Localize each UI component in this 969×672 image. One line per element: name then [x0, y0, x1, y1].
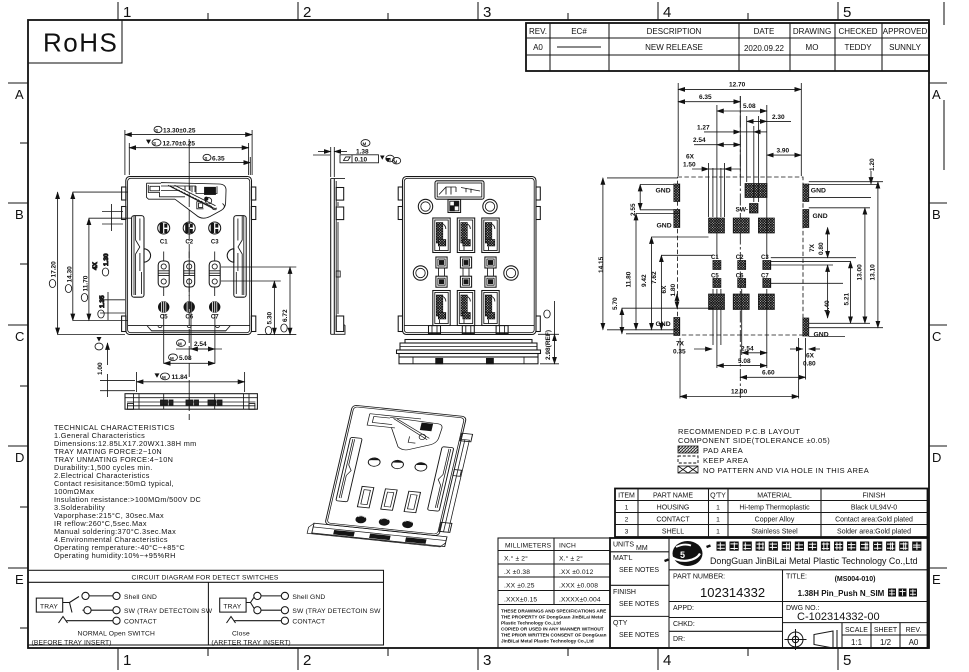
sw contact — [254, 607, 261, 614]
iso switch mechanism — [362, 414, 443, 453]
svg-text:C: C — [15, 329, 24, 344]
svg-text:A: A — [15, 87, 24, 102]
svg-text:A0: A0 — [909, 638, 919, 647]
svg-text:6.72: 6.72 — [282, 309, 289, 322]
svg-text:MAT'L: MAT'L — [613, 555, 633, 562]
svg-text:TEDDY: TEDDY — [844, 43, 872, 52]
svg-text:EC#: EC# — [571, 27, 587, 36]
svg-text:9.42: 9.42 — [641, 274, 648, 287]
left info column — [610, 538, 669, 648]
RoHS box — [28, 20, 122, 63]
iso tray front — [307, 523, 447, 548]
svg-text:SEE NOTES: SEE NOTES — [619, 601, 659, 608]
large pads row top — [709, 218, 725, 233]
company chinese name (pseudo glyphs) — [717, 542, 922, 551]
svg-text:D: D — [932, 450, 941, 465]
svg-text:GND: GND — [811, 188, 826, 195]
svg-text:X.° ± 2°: X.° ± 2° — [559, 555, 583, 563]
svg-text:M: M — [170, 356, 174, 361]
svg-text:5.08: 5.08 — [179, 355, 192, 362]
svg-text:M: M — [363, 142, 367, 147]
dim 4.40 right — [824, 265, 831, 318]
dim 2.55 left — [630, 185, 640, 217]
left guide rail — [132, 216, 151, 298]
center line of top view — [188, 139, 190, 176]
svg-text:.XX ±0.25: .XX ±0.25 — [504, 583, 535, 590]
svg-text:E: E — [932, 572, 941, 587]
projection symbol — [785, 629, 838, 650]
dim 5.21 right — [844, 261, 851, 323]
left dim 11.70 — [81, 218, 131, 320]
svg-text:GND: GND — [657, 223, 672, 230]
top contact C1 — [158, 222, 170, 234]
svg-text:1: 1 — [716, 505, 720, 512]
dim 1.20 right — [809, 158, 877, 185]
svg-text:SCALE: SCALE — [845, 627, 868, 634]
svg-text:RoHS: RoHS — [43, 28, 118, 58]
GND pad bottom-right — [803, 318, 809, 336]
svg-text:2: 2 — [303, 652, 311, 669]
side mounting tabs left — [122, 187, 126, 200]
svg-text:B: B — [15, 207, 24, 222]
svg-text:1.80: 1.80 — [670, 283, 677, 296]
dim 6X 0.80 bottom-right — [790, 349, 820, 368]
svg-text:1: 1 — [123, 4, 131, 21]
center key feature — [448, 200, 461, 213]
svg-text:5: 5 — [843, 4, 851, 21]
svg-text:0.35: 0.35 — [673, 349, 686, 356]
dim 6.35 (pcb) — [678, 94, 740, 102]
svg-text:NORMAL Open SWITCH: NORMAL Open SWITCH — [78, 631, 156, 638]
svg-text:Operating humidity:10%~+95%RH: Operating humidity:10%~+95%RH — [54, 551, 176, 560]
svg-text:1: 1 — [123, 652, 131, 669]
GND pad left-2 — [674, 210, 680, 228]
svg-text:1.38H Pin_Push N_SIM: 1.38H Pin_Push N_SIM — [798, 589, 885, 598]
svg-text:2: 2 — [625, 517, 629, 524]
svg-text:C-102314332-00: C-102314332-00 — [797, 611, 880, 623]
svg-text:COMPONENT SIDE(TOLERANCE ±0.05: COMPONENT SIDE(TOLERANCE ±0.05) — [678, 436, 830, 445]
dim 5.70 left — [612, 297, 622, 334]
svg-text:SHELL: SHELL — [662, 529, 684, 536]
signal pads C1 C2 C3 — [713, 261, 721, 270]
bottom edge tabs — [404, 326, 534, 334]
dim 2.54 (pcb top) — [693, 137, 740, 145]
contact window col2 row1 — [457, 218, 474, 253]
zone column ticks and numbers (bottom) — [118, 648, 838, 670]
svg-text:SUNNLY: SUNNLY — [889, 43, 922, 52]
svg-text:DATE: DATE — [754, 27, 775, 36]
guide hole circles top — [418, 199, 432, 213]
svg-text:13.30±0.25: 13.30±0.25 — [163, 127, 196, 134]
dim 13.00 right — [857, 208, 865, 323]
svg-text:5.70: 5.70 — [612, 297, 619, 310]
TRAY box — [220, 598, 246, 612]
svg-text:13.10: 13.10 — [870, 264, 877, 281]
tray profile under bottom view — [397, 340, 541, 364]
svg-text:17.20: 17.20 — [50, 261, 57, 278]
svg-text:TRAY: TRAY — [40, 604, 58, 611]
svg-text:JinBiLai Metal Plastic Technol: JinBiLai Metal Plastic Technology Co.,Lt… — [501, 639, 594, 644]
svg-text:M: M — [394, 159, 398, 164]
TRAY box — [36, 598, 62, 612]
bottom view side tabs — [398, 187, 402, 200]
dim 12.00 bottom — [680, 389, 799, 397]
svg-text:C1: C1 — [711, 255, 719, 261]
contact window col2 row2 — [457, 291, 474, 326]
svg-text:HOUSING: HOUSING — [657, 505, 690, 512]
dim 13.30±0.25 — [125, 126, 252, 175]
title chinese (pseudo glyphs) — [888, 589, 917, 597]
svg-text:E: E — [15, 572, 24, 587]
svg-text:CONTACT: CONTACT — [656, 517, 690, 524]
svg-text:APPD:: APPD: — [673, 605, 694, 612]
svg-text:4: 4 — [663, 652, 671, 669]
svg-text:X.° ± 2°: X.° ± 2° — [504, 555, 528, 563]
dim 5.08 below main view — [164, 314, 215, 363]
svg-text:7X: 7X — [809, 243, 816, 252]
svg-text:5.30: 5.30 — [266, 311, 273, 324]
dim 7.62 left — [651, 255, 661, 329]
svg-text:7.62: 7.62 — [651, 271, 658, 284]
svg-text:4: 4 — [663, 4, 671, 21]
svg-text:APPROVED: APPROVED — [883, 27, 928, 36]
contact window col3 row2 — [482, 291, 499, 326]
svg-text:ITEM: ITEM — [618, 493, 635, 500]
bottom lip of body — [128, 326, 250, 331]
GND labels — [656, 188, 829, 339]
GND pad top-left — [674, 184, 680, 202]
left small dims 4X 1.30 — [92, 204, 123, 276]
dim 5.08 bottom — [717, 358, 767, 366]
svg-text:0.80: 0.80 — [803, 361, 816, 368]
iso top contacts — [367, 457, 427, 471]
svg-text:S: S — [204, 156, 207, 161]
side mounting tabs right — [251, 187, 255, 200]
svg-text:Stainless Steel: Stainless Steel — [751, 529, 798, 536]
pcb outline (keep area) — [678, 177, 804, 335]
svg-text:CHKD:: CHKD: — [673, 621, 695, 628]
zone row ticks and letters (right) — [929, 2, 947, 568]
svg-text:CHECKED: CHECKED — [838, 27, 877, 36]
svg-text:RECOMMENDED P.C.B LAYOUT: RECOMMENDED P.C.B LAYOUT — [678, 427, 800, 436]
svg-text:C6: C6 — [736, 273, 744, 279]
svg-text:6X: 6X — [806, 353, 815, 360]
svg-text:Solder area:Gold plated: Solder area:Gold plated — [837, 529, 911, 536]
top switch slot — [435, 181, 484, 199]
scale sheet rev — [842, 623, 928, 648]
svg-text:M: M — [178, 342, 182, 347]
svg-text:CONTACT: CONTACT — [124, 619, 157, 626]
svg-text:S: S — [153, 141, 156, 146]
dim 6X 1.50 — [683, 154, 741, 170]
svg-text:Plastic Technology Co.,Ltd: Plastic Technology Co.,Ltd — [501, 621, 561, 626]
svg-text:4X: 4X — [92, 261, 99, 270]
svg-text:6.35: 6.35 — [699, 94, 712, 101]
svg-text:SEE NOTES: SEE NOTES — [619, 632, 659, 639]
iso bottom contacts — [355, 515, 414, 528]
datum symbol at bottom view top-left — [386, 158, 391, 162]
svg-text:THE PRIOR WRITTEN CONSENT OF D: THE PRIOR WRITTEN CONSENT OF DongGuan — [501, 633, 607, 638]
large pads row bottom — [709, 294, 725, 310]
svg-text:TITLE:: TITLE: — [786, 574, 807, 581]
svg-text:SW-: SW- — [736, 207, 749, 214]
svg-text:Q'TY: Q'TY — [710, 493, 726, 500]
svg-text:Close: Close — [232, 631, 250, 638]
svg-text:6X: 6X — [661, 285, 668, 294]
svg-text:MATERIAL: MATERIAL — [757, 493, 792, 500]
dim 5.08 (pcb) — [717, 103, 767, 111]
svg-text:1/2: 1/2 — [880, 638, 892, 647]
spring symbol — [59, 617, 68, 624]
svg-text:REV.: REV. — [529, 27, 547, 36]
svg-text:6.35: 6.35 — [212, 155, 225, 162]
dim 6.35 — [189, 154, 250, 175]
dim 6.60 bottom — [740, 370, 805, 378]
shell gnd contact — [82, 592, 89, 599]
svg-text:S: S — [155, 128, 158, 133]
dim 2.30 (pcb) — [747, 114, 791, 121]
tray lever wire — [63, 597, 84, 613]
svg-text:1.35: 1.35 — [99, 295, 106, 308]
right guide rail — [227, 216, 246, 298]
svg-text:2020.09.22: 2020.09.22 — [744, 44, 785, 53]
svg-text:SHEET: SHEET — [874, 627, 898, 634]
left dim 14.30 — [65, 192, 127, 320]
middle contact pill 2 — [184, 252, 195, 297]
svg-text:2.54: 2.54 — [693, 137, 706, 144]
GND pad right-2 — [803, 210, 809, 228]
svg-text:DongGuan JinBiLai Metal Plasti: DongGuan JinBiLai Metal Plastic Technolo… — [710, 556, 918, 566]
contact wire — [113, 617, 120, 624]
svg-text:CIRCUIT DIAGRAM FOR DETECT SWI: CIRCUIT DIAGRAM FOR DETECT SWITCHES — [132, 575, 279, 582]
svg-text:14.15: 14.15 — [598, 256, 605, 273]
svg-text:GND: GND — [814, 332, 829, 339]
middle pad feature col3 — [485, 257, 496, 287]
detect switch mechanism — [147, 183, 227, 219]
svg-text:12.00: 12.00 — [731, 389, 748, 396]
signal pads C5 C6 C7 — [713, 279, 721, 288]
spring symbol — [227, 617, 236, 624]
top view body outline — [126, 177, 252, 335]
svg-text:Black UL94V-0: Black UL94V-0 — [851, 505, 897, 512]
svg-text:12.70: 12.70 — [729, 82, 746, 89]
svg-text:1: 1 — [625, 505, 629, 512]
svg-text:.X ±0.38: .X ±0.38 — [504, 569, 530, 576]
svg-text:3: 3 — [625, 529, 629, 536]
shell gnd contact — [254, 592, 261, 599]
svg-text:C: C — [932, 329, 941, 344]
svg-text:1: 1 — [716, 517, 720, 524]
svg-text:Shell GND: Shell GND — [292, 594, 325, 601]
svg-text:DR:: DR: — [673, 636, 685, 643]
zone row ticks and letters (left) — [8, 83, 28, 628]
svg-text:COPIED OR USED IN ANY MANNER W: COPIED OR USED IN ANY MANNER WITHOUT — [501, 627, 604, 632]
svg-text:MO: MO — [806, 43, 819, 52]
svg-text:DRAWING: DRAWING — [793, 27, 831, 36]
part number / title row — [669, 570, 928, 602]
dim 3.90 (pcb) — [767, 147, 802, 155]
svg-text:Hi-temp Thermoplastic: Hi-temp Thermoplastic — [739, 505, 810, 512]
center line vertical — [739, 96, 741, 398]
svg-text:1.00: 1.00 — [97, 362, 104, 375]
dim 14.15 left — [598, 178, 605, 330]
svg-text:C5: C5 — [711, 273, 719, 279]
svg-text:11.70: 11.70 — [82, 275, 89, 291]
ext lines above — [677, 83, 679, 176]
svg-text:THESE DRAWINGS AND SPECIFICATI: THESE DRAWINGS AND SPECIFICATIONS ARE — [501, 609, 606, 614]
svg-text:1.27: 1.27 — [697, 124, 710, 131]
svg-text:THE PROPERTY OF DongGuan JinBi: THE PROPERTY OF DongGuan JinBiLai Metal — [501, 615, 603, 620]
svg-text:1.30: 1.30 — [103, 253, 110, 266]
svg-text:B: B — [932, 207, 941, 222]
svg-text:2.54: 2.54 — [741, 345, 754, 352]
svg-text:2.30: 2.30 — [772, 114, 785, 121]
dim 13.10 right — [870, 182, 878, 328]
svg-text:DESCRIPTION: DESCRIPTION — [647, 27, 702, 36]
left side ext lines — [607, 178, 713, 334]
svg-text:6.60: 6.60 — [762, 370, 775, 377]
contact window col1 row2 — [433, 291, 450, 326]
sw contact — [84, 607, 91, 614]
svg-text:CONTACT: CONTACT — [292, 619, 325, 626]
guide hole circles middle — [413, 266, 427, 280]
dim 1.27 (pcb) — [697, 124, 767, 132]
svg-text:FINISH: FINISH — [863, 493, 886, 500]
svg-text:(MS004-010): (MS004-010) — [835, 576, 876, 583]
svg-text:Copper Alloy: Copper Alloy — [755, 517, 795, 524]
svg-text:PART NAME: PART NAME — [653, 493, 693, 500]
svg-text:4.40: 4.40 — [824, 300, 831, 313]
svg-text:.XXX±0.15: .XXX±0.15 — [504, 597, 537, 604]
dim 6.72 right of top view — [281, 267, 290, 335]
svg-text:UNITS: UNITS — [613, 542, 634, 549]
contact wire — [281, 617, 288, 624]
dim 7X 0.80 right — [809, 228, 828, 258]
GND pad bottom-left — [674, 318, 680, 336]
dim 2.98(REF) right of tray profile — [538, 301, 559, 364]
svg-text:12.70±0.25: 12.70±0.25 — [163, 140, 196, 147]
svg-text:C1: C1 — [160, 240, 168, 246]
svg-text:QTY: QTY — [613, 620, 628, 627]
svg-text:102314332: 102314332 — [700, 585, 765, 600]
svg-text:MILLIMETERS: MILLIMETERS — [505, 543, 552, 550]
dim 6X 1.80 left — [661, 283, 677, 308]
bottom ext lines — [680, 289, 806, 399]
svg-text:11.80: 11.80 — [626, 271, 633, 287]
bottom contact C7 — [209, 301, 220, 312]
pad labels — [711, 255, 769, 279]
svg-text:MM: MM — [636, 545, 648, 552]
svg-text:GND: GND — [656, 321, 671, 328]
svg-text:KEEP AREA: KEEP AREA — [703, 456, 749, 465]
svg-text:2.98(REF): 2.98(REF) — [545, 330, 552, 360]
svg-text:5.08: 5.08 — [738, 358, 751, 365]
left vertical dim at front view — [95, 337, 135, 397]
svg-text:0.80: 0.80 — [818, 242, 825, 255]
svg-text:GND: GND — [656, 188, 671, 195]
svg-text:TRAY: TRAY — [223, 604, 241, 611]
right side ext lines — [771, 182, 883, 337]
left small dim 1.35 — [98, 292, 125, 320]
left panel: normal open switch — [32, 592, 213, 646]
svg-text:6X: 6X — [686, 154, 695, 161]
dim 12.70 (pcb) — [678, 82, 801, 90]
svg-text:.XXXX±0.004: .XXXX±0.004 — [559, 597, 601, 604]
svg-text:1: 1 — [716, 529, 720, 536]
svg-text:5.08: 5.08 — [743, 103, 756, 110]
svg-text:A0: A0 — [533, 43, 543, 52]
svg-text:0.10: 0.10 — [355, 156, 368, 163]
SW small pad — [750, 204, 759, 214]
svg-text:5.21: 5.21 — [844, 292, 851, 305]
top contact C3 — [209, 222, 221, 234]
iso right arm — [439, 433, 473, 532]
contact window col3 row1 — [482, 218, 499, 253]
svg-text:NEW RELEASE: NEW RELEASE — [645, 43, 703, 52]
svg-text:(BEFORE TRAY INSERT): (BEFORE TRAY INSERT) — [32, 640, 112, 647]
svg-text:M: M — [162, 375, 166, 380]
contact window col1 row1 — [433, 218, 450, 253]
dim 5.30 right of top view — [221, 267, 296, 335]
svg-text:7X: 7X — [676, 341, 685, 348]
svg-text:2: 2 — [303, 4, 311, 21]
svg-text:1.50: 1.50 — [683, 162, 696, 169]
svg-text:FINISH: FINISH — [613, 589, 636, 596]
svg-text:Contact area:Gold plated: Contact area:Gold plated — [835, 517, 913, 524]
svg-text:(ARFTER TRAY INSERT): (ARFTER TRAY INSERT) — [211, 640, 290, 647]
iso body outline — [325, 405, 467, 536]
svg-text:REV.: REV. — [906, 627, 922, 634]
svg-text:A: A — [932, 87, 941, 102]
svg-text:1.20: 1.20 — [869, 158, 876, 171]
bottom contact C5 — [158, 301, 169, 312]
middle contact pill 1 — [158, 252, 169, 297]
middle contact pill 3 — [209, 252, 220, 297]
dim 11.80 left — [626, 214, 637, 330]
svg-text:5: 5 — [680, 550, 685, 560]
GND pad top-right — [803, 184, 809, 202]
svg-text:C2: C2 — [736, 255, 744, 261]
left dim 17.20 — [49, 192, 125, 334]
iso side rails — [336, 437, 454, 511]
svg-text:PART NUMBER:: PART NUMBER: — [673, 574, 725, 581]
svg-text:SW (TRAY DETECTOIN SW: SW (TRAY DETECTOIN SW — [124, 608, 213, 615]
side view dim 1.38 and flatness callout — [313, 140, 394, 177]
svg-text:Shell GND: Shell GND — [124, 594, 157, 601]
tray lever wire closed — [246, 597, 254, 609]
middle pad feature col2 — [460, 257, 471, 287]
right panel: closed switch — [211, 592, 381, 646]
svg-text:3: 3 — [483, 652, 491, 669]
svg-text:C3: C3 — [761, 255, 769, 261]
bottom contact C6 — [184, 301, 195, 312]
middle pad feature col1 — [436, 257, 447, 287]
svg-text:INCH: INCH — [559, 543, 576, 550]
revision table — [526, 23, 929, 71]
svg-text:3: 3 — [483, 4, 491, 21]
SW pad — [745, 184, 767, 198]
svg-text:NO PATTERN AND VIA HOLE IN THI: NO PATTERN AND VIA HOLE IN THIS AREA — [703, 466, 869, 475]
contact labels C5 C6 C7 — [160, 315, 219, 321]
svg-text:SEE NOTES: SEE NOTES — [619, 567, 659, 574]
dim 9.42 left — [641, 237, 652, 330]
svg-text:2.54: 2.54 — [194, 341, 207, 348]
iso middle contacts — [357, 486, 420, 512]
svg-text:5: 5 — [843, 652, 851, 669]
dim 12.70±0.25 — [129, 139, 248, 175]
svg-text:PAD AREA: PAD AREA — [703, 446, 743, 455]
company logo — [665, 541, 711, 566]
